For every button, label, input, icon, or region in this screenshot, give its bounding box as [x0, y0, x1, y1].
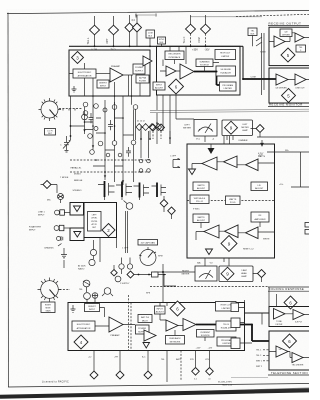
connector circle chassis tail	[126, 203, 133, 210]
wire drops x157-170	[157, 113, 170, 144]
page frame left border	[7, 13, 9, 387]
connector diamond PL3	[144, 371, 152, 379]
page frame top border	[7, 10, 309, 13]
diamond 6 bottom	[170, 301, 185, 316]
module box E tel driver	[269, 331, 310, 370]
ground chassis	[61, 248, 67, 268]
connector diamond J2	[109, 25, 119, 35]
wire main top bus	[69, 45, 243, 47]
connector diamond mon b	[168, 207, 176, 215]
wire leaders to box E	[263, 350, 269, 361]
knob VR1	[39, 98, 62, 121]
meter M1 left	[194, 120, 217, 137]
box head lamp with diamond 9	[219, 266, 253, 282]
wire B1 to B2	[160, 70, 180, 72]
wire risers into D/E	[262, 287, 277, 325]
box invert input A	[97, 80, 109, 88]
box tel blk top	[248, 28, 257, 36]
wire stubs below box C right	[167, 351, 210, 383]
wire dashed horizontals	[70, 160, 150, 172]
box program limiter C	[217, 337, 236, 346]
wire J5 stub	[190, 34, 192, 47]
wire knob1 dashed	[59, 108, 82, 110]
connector diamond PL2	[116, 371, 124, 379]
small contact circles right	[139, 159, 143, 163]
connector P2	[54, 226, 59, 231]
box blend equalizer	[216, 66, 236, 76]
relay contact circles	[83, 102, 138, 154]
wire thick center verticals	[115, 102, 134, 141]
wire meter feeds from box B	[157, 95, 170, 144]
inter-page gray line	[158, 388, 309, 393]
bus junction dots	[94, 45, 218, 72]
wire bias line	[134, 275, 176, 287]
junction dots center band	[84, 95, 142, 173]
wire R1 links	[269, 33, 309, 42]
op-amp mon T5	[225, 225, 239, 238]
box input adjust C	[155, 306, 166, 314]
op-amp C4	[183, 319, 196, 331]
meter M1 terminals	[205, 136, 230, 144]
inter-page dark band	[0, 390, 309, 396]
wire long gray double line	[150, 109, 309, 112]
box watts adjust 2	[193, 214, 209, 223]
module box A record amp left	[69, 50, 150, 96]
op-amp mon T1	[202, 157, 217, 170]
wire dimmer line	[251, 129, 310, 138]
wire right column bus	[242, 46, 244, 79]
transistor Q5	[84, 293, 91, 300]
box feedback network	[166, 336, 185, 345]
meter M2 right	[195, 266, 217, 281]
wire bold bottom path	[196, 325, 269, 342]
transistor Q3	[89, 259, 95, 265]
box left meter lamp with diamond 9	[222, 120, 253, 136]
wire right risers	[267, 152, 309, 187]
box input adjust B	[153, 82, 165, 90]
diamond 4	[74, 335, 88, 349]
box summing source	[196, 59, 213, 67]
wire gray below left	[231, 377, 268, 379]
transformer T3 core bars	[139, 183, 141, 198]
knob VR2 capstan	[139, 247, 156, 266]
wire dashed section divider	[150, 286, 268, 288]
page frame bottom border	[8, 384, 309, 388]
module box B record interface right	[157, 46, 241, 95]
box COM BLK	[146, 30, 155, 38]
transistor Q top	[82, 114, 88, 120]
meter M2 terminals	[205, 258, 229, 266]
box current source	[197, 330, 215, 338]
connector diamond PL4	[192, 368, 200, 376]
box LO FI	[45, 129, 56, 136]
wire monitor row2	[196, 222, 275, 240]
wire J1 stub	[94, 35, 96, 47]
module box level control	[84, 203, 117, 238]
box left of D upper	[231, 303, 239, 312]
diamond 9 monitor	[221, 236, 237, 252]
module box monitor	[187, 144, 275, 258]
knob VR3	[38, 278, 62, 302]
wire tel blk stubs	[253, 33, 265, 95]
box power supply C	[136, 325, 150, 334]
box recorder interface	[165, 51, 184, 60]
diamond 3	[72, 52, 84, 64]
ground open bottom	[206, 249, 213, 255]
box power supply A	[133, 64, 145, 74]
diamond 5 R2	[282, 89, 296, 103]
module box R1 receive upper	[269, 27, 310, 65]
op-amp preamp A	[110, 68, 123, 82]
wire D links	[285, 313, 309, 316]
connector diamond dimmer	[256, 125, 264, 133]
op-amp R1a	[295, 33, 304, 42]
arrowheads on verticals	[83, 129, 124, 183]
wire short horizontals center band	[85, 118, 134, 166]
connector circles cluster	[119, 264, 124, 269]
box wrtga pxl	[190, 195, 209, 204]
connector diamond mon a	[160, 200, 168, 208]
module box D tone filters	[269, 307, 310, 327]
box watts pold	[226, 196, 241, 205]
inductor L1 zigzag	[136, 124, 162, 140]
op-amp D2	[293, 310, 304, 320]
capacitor C1 variable	[63, 136, 71, 152]
wire monitor row1	[192, 162, 275, 169]
box equalizer C	[216, 321, 236, 331]
wire vertical runs center	[85, 96, 149, 185]
wire receive feed bold	[243, 78, 276, 80]
transistor Q6	[115, 276, 121, 282]
box high cut limiter	[215, 50, 236, 60]
box program limiter	[220, 82, 237, 91]
ground in box A	[72, 86, 77, 92]
connector P3	[57, 237, 61, 241]
box left of D mid	[231, 318, 240, 328]
box bat multi C	[138, 315, 152, 323]
wire preamp C links	[95, 308, 135, 327]
transformer T2 core bars	[121, 182, 123, 198]
op-amp E2	[292, 353, 303, 363]
op-amp D1	[274, 309, 286, 320]
connector P1	[55, 210, 60, 215]
wire monitor dashed mid	[187, 200, 275, 202]
op-amp C2	[144, 330, 156, 341]
wire E links	[269, 352, 309, 358]
box 3-E driver R1	[280, 29, 292, 37]
module small box ground lower	[70, 228, 84, 241]
box output filter A	[136, 75, 149, 83]
node junction dots	[242, 78, 244, 80]
op-amp preamp C	[109, 317, 123, 332]
transformer T1 core bars	[104, 181, 106, 197]
connector diamond J6	[201, 24, 211, 34]
page frame top dashed second line	[236, 14, 309, 16]
connector diamond right dimmer	[258, 270, 266, 278]
wire dashed verticals C	[129, 295, 132, 351]
transistor Q7	[104, 288, 111, 295]
wire row2 links	[253, 274, 262, 283]
connector diamond J1	[90, 25, 100, 35]
transistor Q4	[83, 280, 90, 287]
diamond 6 box E	[283, 334, 297, 348]
ground open left	[189, 169, 196, 175]
diamond 6 record	[169, 79, 184, 94]
op-amp mon T2	[224, 156, 238, 168]
wire J6 stub	[205, 34, 207, 47]
switch arrows outside box	[173, 158, 180, 167]
module box C right channel	[68, 303, 245, 351]
op-amp R2a	[276, 74, 288, 85]
label right edge small boxes	[305, 223, 310, 228]
wire feed down left	[71, 96, 85, 140]
wire double vertical	[126, 211, 128, 253]
connector diamond PL5	[206, 368, 214, 376]
wire COM stub	[149, 38, 151, 46]
diamond 6 top right bottom section	[284, 296, 297, 309]
wire B verticals	[162, 44, 187, 66]
connector ground circle above box C	[92, 293, 98, 299]
wire box A internals	[69, 63, 140, 96]
box capstan	[138, 240, 158, 246]
diamond 5 R1	[281, 48, 295, 62]
node ticks above connector diamonds	[95, 15, 206, 25]
connector diamond J3 double	[125, 23, 134, 32]
box electronic attenuator A	[73, 69, 96, 78]
connector diamond PL1	[90, 371, 98, 379]
connector diamond J5	[186, 24, 196, 34]
op-amp A2	[143, 56, 152, 66]
box left of D lower	[231, 338, 240, 349]
wire R2 links	[288, 79, 309, 81]
op-amp mon T3	[246, 159, 259, 171]
ground open C	[143, 343, 150, 349]
transformer T4 core bars	[156, 183, 158, 198]
wire left riser x163	[154, 264, 195, 302]
connector diamond pair left of meter	[150, 124, 157, 131]
top gray marks	[135, 15, 262, 17]
wire J2 stub	[113, 35, 115, 47]
wire J3 stubs	[130, 32, 138, 46]
wire stubs below box C left	[94, 351, 148, 372]
box sync blk	[158, 37, 166, 44]
wire bold tap to box D	[245, 312, 270, 314]
connector diamond cluster b	[127, 271, 134, 278]
module small box ground upper	[70, 203, 84, 216]
box level control text	[88, 212, 102, 232]
wire summing drop	[205, 63, 220, 72]
diamond 2	[102, 224, 115, 237]
box electronic attenuator C	[72, 321, 95, 331]
box high cut limiter C	[216, 302, 237, 312]
op-amp B2	[180, 64, 194, 79]
wire VR3 dashes	[60, 289, 71, 291]
label small ticks right of knob1	[63, 109, 75, 111]
box rf amplifier	[251, 212, 269, 222]
connector diamond cluster a	[111, 270, 117, 276]
op-amp C3	[166, 320, 178, 331]
wire bold record path	[194, 72, 221, 86]
capacitor marks center band	[89, 113, 94, 123]
op-amp E1	[276, 346, 288, 357]
transistor Q2	[90, 249, 96, 255]
op-amp mon T4	[204, 225, 219, 238]
op-amp R1b	[274, 36, 285, 47]
connector diamond mic	[43, 181, 51, 189]
module box R2 receive lower	[269, 68, 310, 103]
transistor Q mic	[58, 194, 64, 200]
box lid adjust	[251, 182, 268, 191]
box bias	[152, 272, 159, 277]
box tel 3	[296, 45, 306, 52]
wire mon diamonds stubs	[164, 196, 172, 219]
ground marker filled top	[208, 148, 215, 154]
ground in box C left	[71, 305, 76, 312]
op-amp R2b	[295, 74, 306, 85]
extra contact circles	[106, 153, 110, 157]
box right mike gain	[41, 302, 55, 313]
wire C internals	[160, 303, 205, 342]
box watts adjust 1	[193, 182, 209, 191]
wire vertical x244	[239, 300, 253, 350]
wire preamp out	[123, 75, 133, 96]
wire attenuator to preamp	[96, 73, 110, 75]
box invert input C	[85, 304, 100, 312]
op-amp mon T6	[246, 227, 259, 239]
op-amp B1	[166, 66, 176, 76]
wire transformer tails	[105, 197, 140, 200]
wire mid connections	[100, 238, 130, 275]
